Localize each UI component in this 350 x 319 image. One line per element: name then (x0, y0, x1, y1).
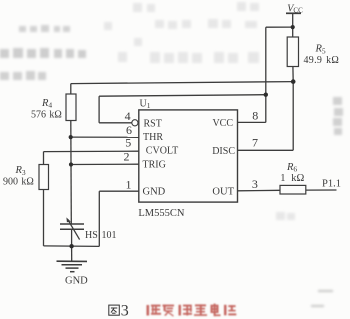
wire VCC feed vertical to pin8 (265, 27, 267, 122)
wire DISC pin7 stub (238, 149, 294, 151)
svg-text:DISC: DISC (212, 146, 235, 157)
wire VCC stem (292, 13, 294, 27)
ground bar 3 (66, 267, 79, 269)
svg-text:5: 5 (125, 136, 131, 150)
red caption text (blurred CJK-like strokes) (147, 304, 237, 317)
watermark faint center rows (104, 2, 295, 220)
watermark row 2 (0, 48, 86, 58)
svg-text:49.9 kΩ: 49.9 kΩ (304, 55, 340, 66)
wire DISC vertical (292, 82, 294, 151)
svg-text:8: 8 (252, 109, 258, 123)
wire GND pin1 horizontal (99, 190, 139, 192)
resistor R5 (287, 37, 298, 67)
char 6 lu (224, 305, 236, 316)
svg-text:4: 4 (125, 109, 131, 123)
capacitor HS1101 plate top (60, 223, 84, 225)
char 4 liang (194, 304, 207, 316)
char 1 shi (147, 305, 162, 316)
svg-text:3: 3 (121, 303, 129, 319)
node ground junction (69, 244, 73, 248)
svg-text:7: 7 (252, 135, 258, 149)
watermark row 1 (19, 25, 70, 32)
char 3 ce (179, 305, 193, 316)
svg-text:1kΩ: 1kΩ (280, 173, 304, 184)
node R4/R5/DISC junction (291, 79, 296, 84)
wire R3 bottom (43, 190, 45, 246)
svg-text:LM555CN: LM555CN (138, 208, 185, 219)
node TRIG junction (69, 162, 73, 166)
resistor R6 (280, 185, 306, 194)
svg-text:TRIG: TRIG (143, 160, 166, 171)
ground bar 1 (57, 260, 88, 262)
svg-text:1: 1 (126, 178, 132, 192)
wire R5 bottom stem (292, 67, 294, 82)
svg-text:P1.1: P1.1 (322, 179, 341, 190)
wire CVOLT pin5 (44, 150, 139, 152)
wire top R4-to-R5/DISC node (71, 82, 293, 84)
svg-text:RST: RST (144, 119, 162, 130)
wire RST loop vertical (98, 96, 100, 123)
wire ground bus (44, 245, 100, 248)
svg-text:U1: U1 (140, 99, 151, 111)
wire RST stub (99, 122, 132, 124)
wire ground stem (71, 246, 73, 261)
wire THR pin6 (71, 136, 139, 138)
resistor R4 (66, 94, 76, 121)
capacitor arrowhead (66, 217, 70, 222)
watermark row 3 (0, 71, 46, 80)
node RST/VCC junction (264, 93, 268, 97)
char 2 du (163, 305, 175, 317)
svg-text:CVOLT: CVOLT (146, 146, 178, 157)
ground bar 2 (62, 264, 83, 266)
wire RST loop top (99, 95, 266, 97)
svg-text:OUT: OUT (212, 186, 234, 197)
caption: hand-drawn CJK 图 (109, 305, 120, 315)
svg-text:576 kΩ: 576 kΩ (31, 109, 62, 120)
op-amp U1 IC box LM555CN (139, 110, 238, 202)
node VCC feed junction (291, 25, 295, 29)
resistor R3 (39, 165, 49, 190)
wire GND pin1 vertical (98, 191, 100, 246)
wire OUT pin3 (238, 189, 281, 192)
svg-text:GND: GND (65, 275, 88, 286)
svg-text:THR: THR (143, 132, 163, 143)
wire TRIG pin2 (71, 163, 139, 165)
ground bar 4 (70, 271, 75, 273)
char 5 dian (211, 304, 221, 317)
svg-text:900 kΩ: 900 kΩ (3, 176, 34, 187)
wire R6 to P1.1 (306, 189, 337, 191)
wire R4 bottom to capacitor (70, 121, 73, 224)
svg-text:VCC: VCC (212, 118, 233, 129)
watermark right column (333, 97, 343, 135)
capacitor arrow (68, 219, 80, 239)
watermark bottom-right marks (311, 290, 333, 307)
svg-text:2: 2 (124, 150, 130, 164)
wire capacitor bottom stem (71, 230, 73, 247)
svg-text:GND: GND (143, 186, 166, 197)
wire R3 top stem (43, 152, 45, 165)
wire R4 top stem (70, 84, 72, 95)
capacitor HS1101 plate bottom (60, 228, 84, 230)
wire R5 top stem (292, 27, 294, 37)
wire VCC feed horizontal (266, 26, 293, 28)
wire pin8 stub (238, 121, 266, 123)
RST bubble (132, 120, 138, 126)
svg-text:3: 3 (252, 177, 258, 191)
node THR junction (69, 135, 73, 139)
VCC terminal bar (286, 12, 301, 14)
svg-text:HS101: HS101 (85, 230, 117, 241)
